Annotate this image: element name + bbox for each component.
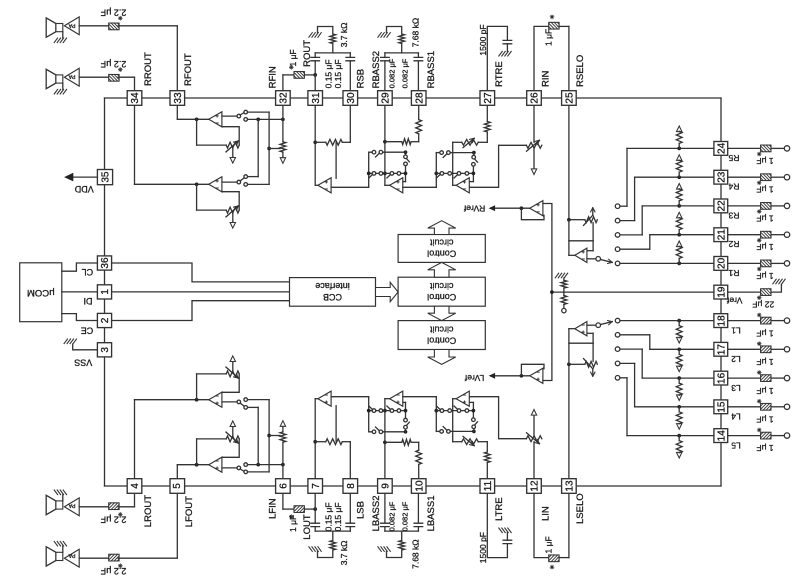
- svg-text:Controlcircuit: Controlcircuit: [427, 281, 456, 302]
- svg-text:LTRE: LTRE: [494, 497, 505, 521]
- svg-text:LSELO: LSELO: [575, 493, 586, 524]
- svg-text:17: 17: [717, 344, 728, 356]
- svg-text:RROUT: RROUT: [143, 52, 154, 86]
- svg-text:LROUT: LROUT: [143, 495, 154, 527]
- svg-text:RBASS2: RBASS2: [371, 51, 382, 89]
- svg-text:DI: DI: [84, 296, 93, 306]
- svg-text:ROUT: ROUT: [302, 40, 313, 67]
- svg-text:6: 6: [279, 483, 290, 489]
- svg-text:30: 30: [346, 92, 357, 104]
- svg-text:CL: CL: [82, 267, 94, 277]
- svg-text:1 μF: 1 μF: [288, 49, 298, 66]
- svg-text:μCOM: μCOM: [27, 287, 55, 298]
- svg-text:7.68 kΩ: 7.68 kΩ: [411, 539, 421, 569]
- svg-text:1 μF: 1 μF: [544, 536, 554, 553]
- svg-text:1: 1: [100, 289, 111, 295]
- svg-text:0.15 μF: 0.15 μF: [333, 502, 343, 531]
- svg-text:0.15 μF: 0.15 μF: [323, 502, 333, 531]
- svg-text:15: 15: [717, 401, 728, 413]
- svg-text:LFIN: LFIN: [267, 498, 278, 519]
- svg-text:L2: L2: [731, 354, 741, 364]
- svg-text:R3: R3: [728, 210, 739, 220]
- svg-text:19: 19: [717, 286, 728, 298]
- svg-text:RIN: RIN: [540, 71, 551, 88]
- svg-text:22 μF: 22 μF: [752, 299, 774, 309]
- svg-text:3.7 kΩ: 3.7 kΩ: [339, 23, 349, 48]
- svg-text:7.68 kΩ: 7.68 kΩ: [411, 18, 421, 48]
- svg-text:RTRE: RTRE: [494, 61, 505, 87]
- svg-text:4: 4: [130, 483, 141, 489]
- svg-text:L4: L4: [731, 412, 741, 422]
- svg-text:1 μF: 1 μF: [756, 415, 773, 425]
- svg-text:24: 24: [717, 142, 728, 154]
- svg-text:R5: R5: [728, 153, 739, 163]
- svg-text:LBASS1: LBASS1: [426, 495, 437, 531]
- svg-text:RFOUT: RFOUT: [183, 53, 194, 86]
- svg-text:0.082 μF: 0.082 μF: [387, 58, 396, 88]
- svg-text:2.2 μF: 2.2 μF: [100, 566, 126, 576]
- svg-text:1 μF: 1 μF: [756, 386, 773, 396]
- svg-text:LOUT: LOUT: [302, 514, 313, 540]
- svg-text:PA: PA: [68, 502, 75, 508]
- svg-text:23: 23: [717, 171, 728, 183]
- svg-text:10: 10: [414, 480, 425, 492]
- svg-text:1 μF: 1 μF: [288, 515, 298, 532]
- svg-text:LVref: LVref: [464, 373, 484, 383]
- svg-text:22: 22: [717, 200, 728, 212]
- svg-text:16: 16: [717, 372, 728, 384]
- svg-text:27: 27: [483, 92, 494, 104]
- svg-text:3.7 kΩ: 3.7 kΩ: [339, 541, 349, 566]
- svg-text:7: 7: [311, 483, 322, 489]
- svg-text:21: 21: [717, 229, 728, 241]
- svg-text:LIN: LIN: [540, 506, 551, 521]
- svg-text:18: 18: [717, 315, 728, 327]
- svg-text:LBASS2: LBASS2: [371, 495, 382, 531]
- svg-text:13: 13: [565, 480, 576, 492]
- svg-text:25: 25: [565, 92, 576, 104]
- svg-text:1500 pF: 1500 pF: [478, 24, 488, 55]
- svg-text:31: 31: [311, 92, 322, 104]
- svg-text:34: 34: [130, 92, 141, 104]
- svg-text:1 μF: 1 μF: [756, 156, 773, 166]
- svg-text:Controlcircuit: Controlcircuit: [427, 238, 456, 259]
- svg-text:9: 9: [381, 483, 392, 489]
- svg-text:0.082 μF: 0.082 μF: [401, 58, 410, 88]
- svg-text:11: 11: [483, 480, 494, 491]
- svg-text:2.2 μF: 2.2 μF: [100, 515, 126, 525]
- svg-text:26: 26: [530, 92, 541, 104]
- svg-text:L5: L5: [731, 440, 741, 450]
- svg-text:R4: R4: [728, 182, 739, 192]
- svg-text:36: 36: [100, 257, 111, 269]
- svg-text:1 μF: 1 μF: [756, 213, 773, 223]
- svg-text:PA: PA: [68, 552, 75, 558]
- svg-text:RSELO: RSELO: [575, 55, 586, 87]
- svg-text:8: 8: [346, 483, 357, 489]
- svg-text:0.15 μF: 0.15 μF: [333, 59, 343, 88]
- svg-text:1500 pF: 1500 pF: [478, 532, 488, 563]
- svg-text:PA: PA: [68, 73, 75, 79]
- svg-text:VSS: VSS: [74, 357, 92, 367]
- svg-text:33: 33: [173, 92, 184, 104]
- svg-text:RBASS1: RBASS1: [426, 51, 437, 89]
- svg-text:29: 29: [381, 92, 392, 104]
- svg-text:1 μF: 1 μF: [756, 242, 773, 252]
- svg-text:32: 32: [279, 92, 290, 104]
- svg-text:3: 3: [100, 347, 111, 353]
- svg-text:0.15 μF: 0.15 μF: [323, 59, 333, 88]
- svg-text:CE: CE: [81, 325, 94, 335]
- svg-text:0.082 μF: 0.082 μF: [387, 501, 396, 531]
- svg-text:LSB: LSB: [356, 501, 367, 519]
- svg-text:2.2 μF: 2.2 μF: [100, 59, 126, 69]
- svg-text:VDD: VDD: [74, 184, 94, 194]
- svg-text:R2: R2: [728, 239, 739, 249]
- svg-text:1 μF: 1 μF: [544, 29, 554, 46]
- svg-text:1 μF: 1 μF: [756, 271, 773, 281]
- svg-text:5: 5: [172, 483, 183, 489]
- svg-text:1 μF: 1 μF: [756, 185, 773, 195]
- svg-text:RVref: RVref: [463, 204, 485, 214]
- svg-text:RFIN: RFIN: [267, 66, 278, 88]
- svg-text:Vref: Vref: [726, 295, 742, 305]
- svg-text:28: 28: [414, 92, 425, 104]
- svg-text:LFOUT: LFOUT: [184, 496, 195, 527]
- svg-text:14: 14: [717, 430, 728, 442]
- svg-text:PA: PA: [68, 22, 75, 28]
- svg-text:RSB: RSB: [356, 69, 367, 89]
- svg-text:R1: R1: [728, 268, 739, 278]
- svg-text:2.2 μF: 2.2 μF: [100, 8, 126, 18]
- svg-text:20: 20: [717, 257, 728, 269]
- svg-text:12: 12: [530, 480, 541, 492]
- svg-text:1 μF: 1 μF: [756, 443, 773, 453]
- svg-text:2: 2: [100, 317, 111, 323]
- svg-text:Controlcircuit: Controlcircuit: [427, 324, 456, 345]
- svg-text:0.082 μF: 0.082 μF: [401, 501, 410, 531]
- svg-text:L3: L3: [731, 383, 741, 393]
- svg-text:1 μF: 1 μF: [756, 328, 773, 338]
- svg-text:L1: L1: [731, 325, 741, 335]
- svg-text:35: 35: [101, 171, 112, 183]
- svg-text:1 μF: 1 μF: [756, 357, 773, 367]
